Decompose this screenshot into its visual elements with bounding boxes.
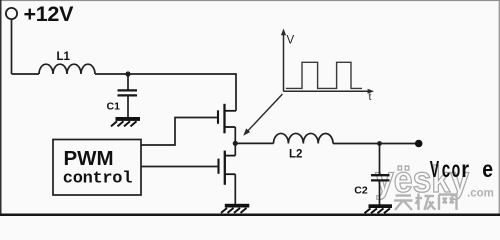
svg-text:o: o — [452, 156, 461, 182]
ground below C1 — [111, 117, 140, 126]
wire L2 to output terminal — [333, 143, 416, 145]
wire Q2 source to ground — [234, 174, 236, 204]
terminal +12V input — [6, 8, 17, 19]
transistor Q1 high-side MOSFET — [218, 104, 236, 134]
capacitor C1 — [118, 90, 138, 95]
waveform square pulses — [286, 62, 362, 88]
image frame border right — [499, 0, 500, 216]
image frame border top — [0, 0, 500, 1]
node SW switch node junction dot — [233, 141, 238, 146]
watermark 天 character (hand drawn) — [394, 196, 413, 211]
node A junction dot at C1 tap — [125, 71, 130, 76]
image frame border left — [0, 0, 2, 216]
arrow from waveform to node SW — [243, 94, 282, 136]
svg-text:V: V — [430, 156, 440, 182]
capacitor C2 — [371, 175, 390, 180]
svg-text:V: V — [287, 35, 295, 47]
svg-text:e: e — [482, 156, 493, 182]
wire PWM output to Q2 gate — [141, 166, 219, 168]
svg-text:C1: C1 — [107, 101, 121, 113]
wire PWM output to Q1 gate — [141, 118, 218, 146]
svg-text:control: control — [63, 170, 132, 189]
svg-text:.com: .com — [467, 188, 494, 200]
image frame border bottom — [0, 214, 500, 217]
svg-text:PWM: PWM — [64, 147, 114, 170]
terminal Vcore output dot — [415, 140, 423, 148]
svg-text:C2: C2 — [354, 184, 368, 196]
svg-text:+12V: +12V — [24, 2, 75, 26]
waveform inset t axis — [284, 89, 375, 94]
label Vcore — [430, 156, 493, 182]
wire rail down to Q1 drain — [235, 73, 237, 111]
node B junction dot at C2 tap — [377, 141, 382, 146]
waveform inset V axis — [281, 29, 286, 92]
svg-text:c: c — [442, 156, 451, 182]
transistor Q2 low-side MOSFET — [219, 151, 236, 185]
inductor L1 — [39, 64, 95, 74]
wire to L1 — [12, 73, 40, 75]
svg-text:t: t — [369, 91, 372, 103]
wire node B down to C2 — [379, 144, 381, 176]
wire C1 to ground — [127, 95, 129, 117]
wire Q1 source down to switch node — [234, 127, 236, 143]
wire node SW down to Q2 drain — [234, 143, 236, 155]
wire node SW to L2 — [235, 142, 273, 144]
ground below C2 — [365, 204, 393, 213]
svg-text:r: r — [461, 156, 469, 182]
watermark .com — [467, 188, 494, 200]
wire L1 to Q1 drain rail — [95, 73, 236, 75]
watermark 极 character (hand drawn) — [416, 194, 436, 211]
ground below Q2 — [221, 204, 249, 213]
svg-text:L2: L2 — [289, 149, 302, 161]
PWM controller box — [53, 140, 141, 196]
wire node A down to C1 — [127, 74, 129, 90]
wire from terminal down — [11, 19, 13, 74]
watermark Yesky hollow logo — [375, 159, 469, 200]
wire C2 to ground — [379, 180, 381, 204]
inductor L2 — [274, 133, 334, 143]
svg-text:L1: L1 — [57, 51, 71, 63]
watermark 网 character (hand drawn) — [439, 195, 457, 211]
